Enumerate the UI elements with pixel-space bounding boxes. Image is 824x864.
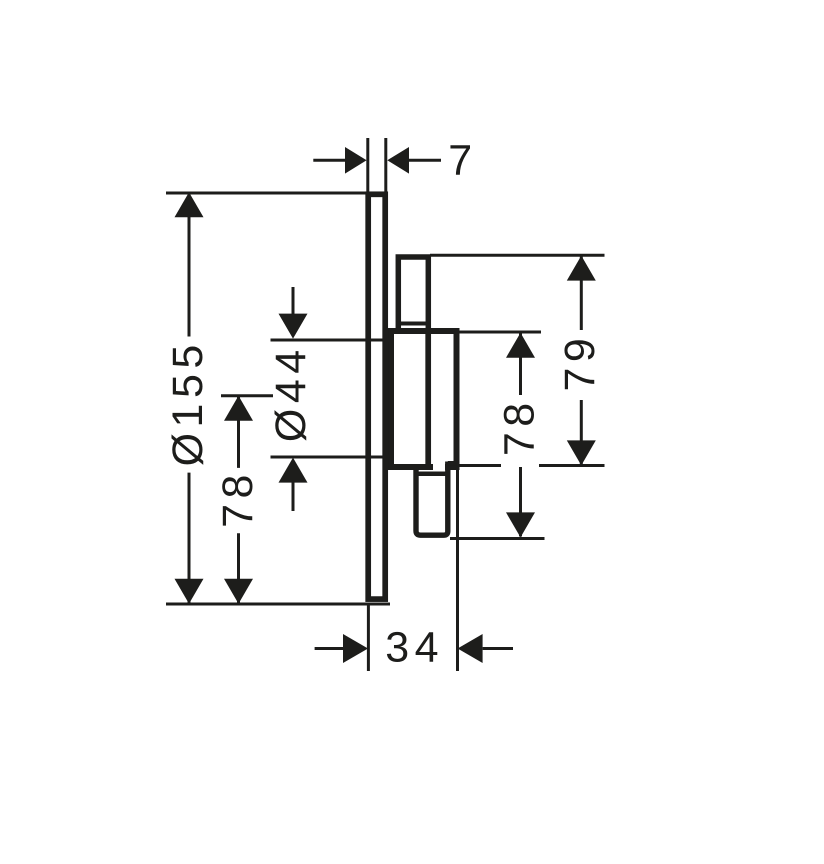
gap in body bottom edge bbox=[433, 464, 445, 471]
svg-text:78: 78 bbox=[214, 469, 262, 528]
label Ø155 bbox=[164, 339, 212, 466]
78 left arrow down bbox=[224, 579, 253, 604]
78 left arrow up bbox=[224, 396, 253, 421]
dimension 34 arrow right bbox=[458, 634, 483, 663]
Ø44 arrow down bbox=[279, 314, 308, 339]
78 right arrow up bbox=[506, 333, 535, 358]
label Ø44 bbox=[267, 344, 315, 442]
upper spigot seam line bbox=[401, 322, 427, 326]
extension line bottom of plate (Ø155 bottom) bbox=[166, 603, 390, 606]
extension line 34 left (plate left) bbox=[367, 605, 370, 671]
79 arrow down bbox=[567, 440, 596, 465]
label 34 bbox=[385, 624, 444, 672]
label 79 bbox=[556, 333, 604, 392]
Ø155 arrow down bbox=[175, 579, 204, 604]
dimension 7 line right tail bbox=[409, 159, 441, 162]
svg-text:7: 7 bbox=[448, 136, 472, 184]
internal cartridge sleeve line bbox=[425, 333, 431, 467]
dimension line Ø44 lower segment bbox=[292, 480, 295, 511]
svg-text:79: 79 bbox=[556, 333, 604, 392]
dimension 7 arrow right bbox=[387, 147, 409, 174]
extension line 79 top (spigot top) bbox=[430, 254, 605, 257]
dimension line 78 left bbox=[237, 397, 240, 604]
extension line 78-right top (body top) bbox=[459, 331, 541, 334]
diameter 44 top extension line bbox=[271, 339, 392, 342]
extension line 78-right bottom (lower spigot bottom) bbox=[450, 537, 545, 540]
svg-text:78: 78 bbox=[496, 397, 544, 456]
diameter 44 bottom extension line bbox=[271, 456, 392, 459]
78 right arrow down bbox=[506, 512, 535, 537]
extension line top of plate (Ø155 top) bbox=[166, 192, 386, 195]
extension line 7-dim right bbox=[384, 138, 387, 192]
label 78 left bbox=[214, 469, 262, 528]
body top edge redraw bbox=[388, 328, 460, 334]
dimension line 78 right bbox=[519, 334, 522, 537]
dimension line 79 bbox=[580, 257, 583, 465]
svg-text:34: 34 bbox=[385, 624, 444, 672]
svg-text:Ø155: Ø155 bbox=[164, 339, 212, 466]
label 78 right bbox=[496, 397, 544, 456]
Ø155 arrow up bbox=[175, 192, 204, 217]
dimension 7 arrow left bbox=[345, 147, 367, 174]
dimension 34 left tail bbox=[315, 647, 345, 650]
lower spigot seam line bbox=[419, 472, 446, 477]
escutcheon plate bbox=[368, 194, 385, 599]
dimension 34 arrow left bbox=[343, 634, 368, 663]
upper spigot bbox=[398, 257, 428, 331]
79 arrow up bbox=[567, 256, 596, 281]
dimension 7 line left tail bbox=[313, 159, 346, 162]
dimension 34 right tail bbox=[483, 647, 513, 650]
extension line 7-dim left bbox=[366, 138, 369, 192]
corner fill lower spigot to body bbox=[448, 461, 458, 466]
dimension line Ø44 upper segment bbox=[292, 287, 295, 320]
dimension line Ø155 bbox=[188, 193, 191, 603]
extension line centerline tick (78 left top) bbox=[221, 394, 273, 397]
label 7 bbox=[448, 136, 472, 184]
extension line 34 right (body right) bbox=[456, 470, 459, 671]
valve body bbox=[391, 331, 457, 467]
Ø44 arrow up bbox=[279, 458, 308, 483]
lower spigot bbox=[416, 462, 448, 536]
svg-text:Ø44: Ø44 bbox=[267, 344, 315, 442]
extension line 79 bottom (body bottom) bbox=[459, 464, 605, 467]
